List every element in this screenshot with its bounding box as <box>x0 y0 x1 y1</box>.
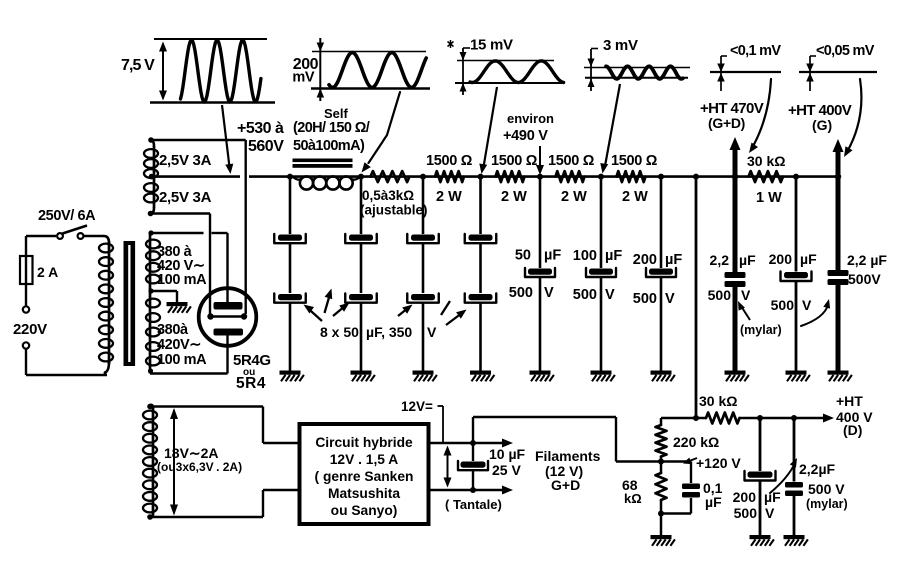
ground C7 <box>651 371 675 382</box>
svg-text:ou Sanyo): ou Sanyo) <box>331 503 398 518</box>
label +HT 400V (G) <box>788 102 852 133</box>
label 12V= with leader <box>401 399 443 442</box>
wire +HT(D) feed <box>661 415 706 421</box>
svg-text:1500 Ω: 1500 Ω <box>548 153 595 169</box>
ground C5 <box>530 371 554 382</box>
svg-text:100 mA: 100 mA <box>157 352 207 368</box>
label 200µF 500V <box>633 252 683 307</box>
label 2W R4 <box>561 189 587 205</box>
svg-text:500: 500 <box>708 287 732 303</box>
wire 18V bottom <box>147 490 299 520</box>
svg-text:V: V <box>802 297 812 313</box>
capacitor C10 2,2µF on +HT400 rail <box>828 177 849 371</box>
ground R9 <box>651 535 675 546</box>
wire HV bottom to tube <box>148 368 228 373</box>
capacitor bank branch C4a/C4b (2x50uF stacked) <box>465 177 497 371</box>
ground branch C3a/C3b <box>413 371 437 382</box>
node R3-R4 <box>537 174 543 180</box>
waveform 3mV ripple scope trace <box>584 49 690 92</box>
pointer arrow <0,1mV to +HT 470V rail <box>749 79 771 153</box>
svg-text:250V/ 6A: 250V/ 6A <box>38 208 96 224</box>
node after choke <box>358 174 364 180</box>
svg-text:V: V <box>765 505 775 521</box>
label <0,05 mV <box>816 43 875 59</box>
wire R7 to output <box>740 415 827 421</box>
pointer arrow waveform 7,5V to rail <box>222 105 233 174</box>
label 2W R3 <box>501 189 527 205</box>
ripple marker <0,05 mV <box>799 56 877 91</box>
tiny asterisk mark near 15mV <box>448 40 454 48</box>
ground C9 <box>786 371 810 382</box>
svg-text:50à100mA): 50à100mA) <box>293 138 365 154</box>
svg-text:( genre Sanken: ( genre Sanken <box>315 469 414 484</box>
svg-text:2,2 µF: 2,2 µF <box>847 252 887 268</box>
label +120V with arrow <box>683 455 741 471</box>
svg-text:kΩ: kΩ <box>624 491 642 506</box>
svg-text:<0,05 mV: <0,05 mV <box>816 43 875 59</box>
ripple marker <0,1 mV <box>710 56 781 91</box>
waveform 7,5V ripple scope trace <box>150 39 275 103</box>
node +HT470 rail <box>732 173 738 179</box>
svg-text:µF: µF <box>739 252 756 268</box>
waveform 15mV ripple scope trace <box>455 48 564 95</box>
transformer core <box>124 241 136 366</box>
label +HT 470V (G+D) <box>700 100 764 131</box>
resistor R9 68kΩ <box>656 462 667 514</box>
svg-text:1 W: 1 W <box>756 190 782 206</box>
label 380 à 420V~ 100mA upper <box>157 244 207 288</box>
HV center tap to ground <box>148 288 177 302</box>
svg-text:µF: µF <box>605 248 622 264</box>
label environ +490V <box>503 111 554 144</box>
label 2A <box>37 264 58 280</box>
label 2,5V 3A lower <box>159 189 212 206</box>
svg-text:(20H/ 150 Ω/: (20H/ 150 Ω/ <box>293 120 370 136</box>
capacitor bank branch C3a/C3b (2x50uF stacked) <box>407 177 439 371</box>
svg-text:Self: Self <box>324 106 349 121</box>
wire 12V to +120V node <box>473 417 661 462</box>
wire anode stem top <box>226 233 228 302</box>
dimension arrow 18V winding <box>170 408 178 516</box>
switch S1 <box>26 226 104 239</box>
svg-text:2,2: 2,2 <box>710 252 730 268</box>
ground C13 <box>750 535 774 546</box>
capacitor C13 200µF 500V <box>745 418 776 535</box>
label 0,5à3kΩ (ajustable) <box>360 188 428 218</box>
label 1500Ω R2 <box>426 153 473 169</box>
capacitor C6 (100µF 500V) <box>586 177 616 371</box>
+HT 400V G output rail with arrow <box>833 139 844 177</box>
svg-text:(ou3x6,3V . 2A): (ou3x6,3V . 2A) <box>157 460 242 474</box>
svg-text:(G+D): (G+D) <box>708 115 745 131</box>
label 2W R5 <box>622 189 648 205</box>
label 220V <box>13 321 47 338</box>
label 200 mV <box>292 56 318 86</box>
svg-text:50: 50 <box>515 248 531 264</box>
svg-text:+490 V: +490 V <box>503 128 548 144</box>
resistor R4 1500Ω <box>556 171 585 182</box>
resistor R8 220kΩ <box>656 418 667 462</box>
label 220 kΩ R8 <box>673 434 719 450</box>
label 18V~2A (ou3x6,3V.2A) <box>157 445 242 474</box>
node +120V <box>658 459 664 465</box>
tube anode plate top <box>214 302 243 310</box>
svg-text:1500 Ω: 1500 Ω <box>426 153 473 169</box>
wire filament top to tube <box>148 137 246 314</box>
svg-text:15 mV: 15 mV <box>470 37 513 54</box>
ground branch C4a/C4b <box>470 371 494 382</box>
svg-text:30 kΩ: 30 kΩ <box>747 153 785 169</box>
node before choke <box>287 174 293 180</box>
label 0,1 µF C12 <box>703 480 723 510</box>
choke core bar <box>293 159 353 168</box>
svg-text:2,5V 3A: 2,5V 3A <box>159 189 212 206</box>
label 30 kΩ R7 <box>699 393 737 409</box>
label +HT 400 V (D) <box>836 393 873 438</box>
capacitor C7 (200µF 500V) <box>646 177 676 371</box>
label 200µF 500V C13 <box>733 489 781 521</box>
tube anode plate bottom <box>214 329 244 336</box>
svg-text:5R4: 5R4 <box>236 375 266 392</box>
resistor R5 1500Ω <box>617 171 646 182</box>
pointer arrow +490V to node <box>536 146 544 175</box>
label 100µF 500V <box>573 248 623 303</box>
svg-text:560V: 560V <box>248 138 284 155</box>
resistor R3 1500Ω <box>496 171 525 182</box>
pointer arrow <0,05mV to +HT 400V rail <box>844 79 861 157</box>
svg-text:(G): (G) <box>812 117 832 133</box>
svg-text:500: 500 <box>633 291 657 307</box>
transformer primary winding 220V <box>99 236 113 375</box>
svg-text:µF: µF <box>800 251 817 267</box>
label (mylar) with arrows <box>738 299 830 337</box>
transformer 18V winding <box>143 405 157 517</box>
capacitor C8 2,2µF mylar on +HT470 rail <box>725 177 746 371</box>
svg-text:200: 200 <box>769 251 793 267</box>
svg-text:500V: 500V <box>848 271 881 287</box>
svg-text:2 A: 2 A <box>37 264 58 280</box>
svg-text:10 µF: 10 µF <box>489 446 526 462</box>
capacitor C14 2,2µF 500V mylar <box>785 418 803 535</box>
node below 68k <box>658 511 664 517</box>
node R4-R5 <box>598 174 604 180</box>
wire 18V top <box>147 404 299 443</box>
capacitor C5 (50µF 500V) <box>525 177 555 371</box>
svg-text:(ajustable): (ajustable) <box>360 203 428 218</box>
svg-text:100 mA: 100 mA <box>157 272 207 288</box>
svg-text:500: 500 <box>771 297 795 313</box>
svg-text:(mylar): (mylar) <box>806 497 848 511</box>
capacitor bank branch C2a/C2b (2x50uF stacked) <box>345 177 377 371</box>
label 50µF 500V <box>509 248 562 302</box>
svg-text:7,5 V: 7,5 V <box>121 57 155 74</box>
ground C8 <box>725 371 749 382</box>
label 1500Ω R4 <box>548 153 595 169</box>
svg-text:µF, 350: µF, 350 <box>366 324 412 340</box>
wire hybrid out bottom <box>429 487 505 493</box>
svg-text:2 W: 2 W <box>436 189 462 205</box>
hybrid regulator box U1 <box>300 424 429 524</box>
svg-text:2 W: 2 W <box>561 189 587 205</box>
svg-text:500: 500 <box>573 287 597 303</box>
label 30 kΩ R6 <box>747 153 785 169</box>
label 250V/6A switch rating <box>38 208 96 224</box>
svg-text:(mylar): (mylar) <box>740 323 782 337</box>
inductor L1 choke <box>293 176 360 189</box>
svg-text:3 mV: 3 mV <box>603 37 638 54</box>
pointer arrow waveform 15mV to node +490V-15mV <box>479 87 497 174</box>
svg-text:8 x 50: 8 x 50 <box>320 324 359 340</box>
label 10 µF 25 V <box>489 446 526 478</box>
label +530 à 560V <box>237 120 284 155</box>
label Circuit hybride text <box>315 435 414 518</box>
svg-text:25 V: 25 V <box>492 462 521 478</box>
label 1500Ω R3 <box>491 153 538 169</box>
svg-text:Filaments: Filaments <box>535 448 601 464</box>
svg-text:mV: mV <box>292 70 314 86</box>
ground C14 <box>784 535 808 546</box>
svg-text:1500 Ω: 1500 Ω <box>611 153 658 169</box>
svg-text:( Tantale): ( Tantale) <box>445 497 502 512</box>
svg-text:2 W: 2 W <box>501 189 527 205</box>
svg-text:+HT: +HT <box>836 393 863 409</box>
svg-text:µF: µF <box>705 494 722 510</box>
capacitor C9 200µF 500V <box>781 177 812 371</box>
label 8 x 50 µF, 350 V <box>320 324 437 340</box>
svg-text:+530 à: +530 à <box>237 120 284 137</box>
filament output arrow bottom <box>502 486 513 495</box>
label 15 mV <box>470 37 513 54</box>
resistor R7 30kΩ <box>706 413 740 424</box>
label 2,2µF 500V (mylar) C14 <box>770 458 848 511</box>
svg-text:500 V: 500 V <box>808 481 845 497</box>
label 2,5V 3A upper <box>159 152 212 169</box>
node feed to bottom section <box>693 174 699 180</box>
svg-text:<0,1 mV: <0,1 mV <box>730 43 781 59</box>
svg-text:G+D: G+D <box>551 477 580 493</box>
wire anode stem bottom <box>226 336 228 374</box>
ground HV center tap <box>167 302 191 313</box>
capacitor C11 10µF 25V tantale <box>458 443 488 490</box>
svg-text:(D): (D) <box>843 422 862 438</box>
label 5R4G ou 5R4 <box>233 352 271 392</box>
wire to bottom section <box>695 177 698 418</box>
transformer filament winding 2x2,5V <box>144 140 158 214</box>
svg-text:V: V <box>605 287 615 303</box>
svg-text:V: V <box>665 291 675 307</box>
label 380à 420V~ 100mA lower <box>157 322 207 368</box>
resistor R2 1500Ω <box>435 171 464 182</box>
svg-text:12V=: 12V= <box>401 399 433 414</box>
svg-text:µF: µF <box>544 248 561 264</box>
transformer HV secondary winding <box>146 233 160 374</box>
label 3 mV <box>603 37 638 54</box>
label 2,2µF 500V C8 <box>708 252 756 303</box>
pointer arrows to 8x50uF caps <box>304 289 467 326</box>
svg-text:Circuit hybride: Circuit hybride <box>315 435 413 450</box>
filament output arrow top <box>473 439 513 448</box>
node R1-R2 <box>420 174 426 180</box>
svg-text:environ: environ <box>507 111 554 126</box>
label 200µF 500V C9 <box>769 251 817 313</box>
output arrow +HT 400V (D) <box>823 414 834 423</box>
svg-text:500: 500 <box>509 285 533 301</box>
resistor R1 0,5à3kΩ ajustable <box>371 171 410 182</box>
node R2-R3 <box>478 174 484 180</box>
svg-text:Matsushita: Matsushita <box>328 486 400 501</box>
mains terminal lower <box>23 342 29 348</box>
pointer arrow waveform 3mV to node <box>600 84 620 174</box>
label <0,1 mV <box>730 43 781 59</box>
node 200uF-b10 <box>793 174 799 180</box>
capacitor bank branch C1a/C1b (2x50uF stacked) <box>274 177 306 371</box>
ground C6 <box>591 371 615 382</box>
wire B+ rail (filament CT output) <box>149 174 838 180</box>
ground C10 <box>828 371 852 382</box>
rectifier tube 5R4G envelope <box>199 288 257 346</box>
label choke value (20H/150Ω/50à100mA) <box>293 120 370 154</box>
resistor R6 30kΩ <box>749 171 784 182</box>
svg-text:12V . 1,5 A: 12V . 1,5 A <box>330 452 399 467</box>
svg-text:1500 Ω: 1500 Ω <box>491 153 538 169</box>
label 2,2µF 500V C10 <box>847 252 887 287</box>
label 2W R2 <box>436 189 462 205</box>
svg-text:380à: 380à <box>157 322 189 338</box>
label ( Tantale) <box>445 497 502 512</box>
svg-text:V: V <box>544 285 554 301</box>
svg-text:2,2µF: 2,2µF <box>799 461 836 477</box>
wire HV top to anode (with crossover break) <box>148 230 227 235</box>
capacitor C12 0,1µF <box>661 462 700 514</box>
label 7,5 V <box>121 57 155 74</box>
svg-text:30 kΩ: 30 kΩ <box>699 393 737 409</box>
dimension arrow 12V <box>444 446 452 488</box>
label 1500Ω R5 <box>611 153 658 169</box>
svg-text:18V∼2A: 18V∼2A <box>164 445 219 461</box>
fuse F1 2A <box>20 236 33 306</box>
mains terminal upper <box>23 306 29 312</box>
svg-text:100: 100 <box>573 248 597 264</box>
svg-text:220V: 220V <box>13 321 47 338</box>
node +HT400G rail <box>835 173 841 179</box>
svg-text:220 kΩ: 220 kΩ <box>673 434 719 450</box>
svg-text:0,5à3kΩ: 0,5à3kΩ <box>362 188 414 203</box>
svg-text:2,5V 3A: 2,5V 3A <box>159 152 212 169</box>
svg-text:420V∼: 420V∼ <box>157 337 201 353</box>
svg-text:200: 200 <box>733 489 757 505</box>
svg-text:200: 200 <box>633 252 657 268</box>
wire filament bottom to tube <box>148 211 210 314</box>
node R5 out / 200uF branch <box>658 174 664 180</box>
svg-text:500: 500 <box>734 505 758 521</box>
wire hybrid out top <box>429 440 477 446</box>
+HT 470V output rail with arrow <box>730 137 741 177</box>
ground branch C2a/C2b <box>351 371 375 382</box>
label Self <box>324 106 349 121</box>
label 1W R6 <box>756 190 782 206</box>
svg-text:µF: µF <box>665 252 682 268</box>
label 68 kΩ R9 <box>622 477 642 506</box>
wire 68k to ground <box>660 514 663 536</box>
svg-text:+120 V: +120 V <box>696 455 741 471</box>
svg-text:2 W: 2 W <box>622 189 648 205</box>
waveform 200mV ripple scope trace <box>311 38 430 101</box>
svg-text:V: V <box>427 324 437 340</box>
svg-text:V: V <box>741 287 751 303</box>
pointer arrow waveform 200mV to node after choke <box>362 92 401 173</box>
ground branch C1a/C1b <box>280 371 304 382</box>
label Filaments (12V) G+D <box>535 448 601 493</box>
tube filament <box>207 313 247 319</box>
wire mains bottom <box>26 349 107 376</box>
